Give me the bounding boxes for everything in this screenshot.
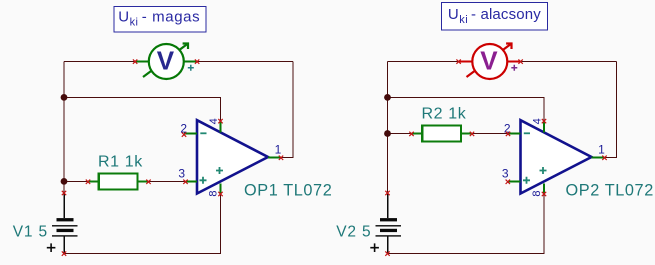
svg-text:V1 5: V1 5: [13, 223, 48, 240]
x pin marker battery top: [62, 191, 66, 195]
x pin marker voltmeter right: [518, 59, 522, 63]
x pin marker pin 2: [182, 132, 186, 136]
svg-text:V2 5: V2 5: [336, 223, 371, 240]
pin 8 stub: [543, 184, 545, 195]
node D junction dot: [384, 130, 391, 137]
wire: top rail left segment: [388, 61, 459, 63]
svg-text:R1 1k: R1 1k: [98, 154, 143, 171]
svg-text:2: 2: [180, 121, 187, 135]
pin 4 stub: [543, 121, 545, 133]
op-amp U1 plus mark (supply): [216, 167, 223, 174]
pin label 1: [598, 143, 605, 157]
wire: node to R2: [388, 133, 412, 135]
pin 1 stub: [268, 156, 281, 158]
wire: bottom rail to pin 8: [388, 194, 545, 254]
wire: top rail right segment: [521, 61, 617, 63]
node B junction dot: [61, 178, 68, 185]
pin label 2: [180, 121, 187, 135]
svg-text:ki: ki: [130, 17, 139, 29]
battery V2: [370, 194, 401, 254]
op-amp U1 minus mark: [200, 132, 206, 134]
svg-text:- alacsony: - alacsony: [471, 6, 541, 23]
x pin marker battery bottom: [385, 251, 389, 255]
x pin marker battery top: [385, 191, 389, 195]
wire: R2 to pin 2: [472, 133, 508, 135]
x pin marker pin 3: [506, 180, 510, 184]
pin 4 stub: [220, 121, 222, 133]
svg-text:ki: ki: [459, 14, 468, 26]
label R2 1k: [422, 106, 467, 123]
x pin marker pin 3: [183, 180, 187, 184]
x pin marker voltmeter left: [456, 59, 460, 63]
x pin marker pin 4: [218, 119, 222, 123]
op-amp U2 minus mark: [524, 132, 530, 134]
op-amp U1 plus mark (input): [200, 177, 207, 184]
x pin marker pin 1: [602, 156, 606, 160]
pin 8 stub: [220, 184, 222, 195]
wire: right vertical rail: [605, 62, 617, 158]
pin label 3: [502, 167, 509, 181]
pin label 4: [531, 118, 543, 124]
pin 2 stub: [184, 133, 197, 135]
svg-text:8: 8: [531, 190, 543, 196]
wire: left vertical rail: [63, 62, 65, 194]
wire: bottom rail to pin 8: [64, 194, 221, 254]
x pin marker pin 1: [279, 156, 283, 160]
label V1 5: [13, 223, 48, 240]
x pin marker pin 4: [542, 119, 546, 123]
x pin marker R1 left: [86, 180, 90, 184]
x pin marker pin 8: [218, 192, 222, 196]
svg-text:U: U: [448, 6, 459, 23]
label OP2 TL072: [566, 181, 654, 199]
resistor R2: [412, 126, 473, 142]
resistor R1: [88, 174, 149, 190]
wire: top rail left segment: [64, 61, 135, 63]
wire: R1 to pin 3: [149, 180, 186, 182]
label R1 1k: [98, 154, 143, 171]
wire: mid rail to pin 4: [388, 97, 545, 121]
x pin marker voltmeter left: [133, 59, 137, 63]
wire: node to R1: [64, 180, 88, 182]
op-amp U2 plus mark (input): [523, 177, 530, 184]
label V2 5: [336, 223, 371, 240]
node A junction dot: [61, 94, 68, 101]
svg-text:3: 3: [178, 167, 185, 181]
wire: top rail right segment: [197, 61, 293, 63]
wire: right vertical rail: [281, 62, 293, 158]
pin label 2: [504, 121, 511, 135]
voltmeter VM2: [459, 44, 521, 80]
label OP1 TL072: [244, 181, 332, 199]
op-amp U1 triangle: [197, 120, 268, 193]
op-amp U2 triangle: [521, 120, 592, 193]
battery V1: [47, 193, 78, 254]
x pin marker R1 right: [146, 180, 150, 184]
svg-text:OP1 TL072: OP1 TL072: [244, 181, 332, 199]
x pin marker R2 left: [409, 132, 413, 136]
node C junction dot: [384, 94, 391, 101]
pin 3 stub: [186, 180, 198, 182]
pin label 8: [208, 190, 220, 196]
x pin marker pin 2: [506, 132, 510, 136]
wire: left vertical rail: [387, 62, 389, 195]
title box U_ki - magas: [114, 7, 206, 32]
pin 2 stub: [508, 133, 521, 135]
wire: mid rail to pin 4: [64, 97, 221, 121]
svg-text:1: 1: [598, 143, 605, 157]
svg-text:8: 8: [208, 190, 220, 196]
voltmeter VM1: [135, 44, 197, 80]
svg-text:- magas: - magas: [142, 9, 200, 26]
x pin marker voltmeter right: [195, 59, 199, 63]
pin label 4: [208, 118, 220, 124]
pin label 8: [531, 190, 543, 196]
svg-text:OP2 TL072: OP2 TL072: [566, 181, 654, 199]
pin label 3: [178, 167, 185, 181]
svg-text:V: V: [157, 46, 175, 76]
svg-text:3: 3: [502, 167, 509, 181]
svg-text:U: U: [118, 9, 129, 26]
svg-text:R2 1k: R2 1k: [422, 106, 467, 123]
svg-text:1: 1: [275, 143, 282, 157]
pin 3 stub: [508, 180, 521, 182]
x pin marker battery bottom: [62, 251, 66, 255]
svg-text:V: V: [480, 46, 498, 76]
x pin marker pin 8: [542, 192, 546, 196]
title box U_ki - alacsony: [442, 3, 548, 31]
pin 1 stub: [592, 156, 605, 158]
pin label 1: [275, 143, 282, 157]
x pin marker R2 right: [470, 132, 474, 136]
op-amp U2 plus mark (supply): [540, 167, 547, 174]
